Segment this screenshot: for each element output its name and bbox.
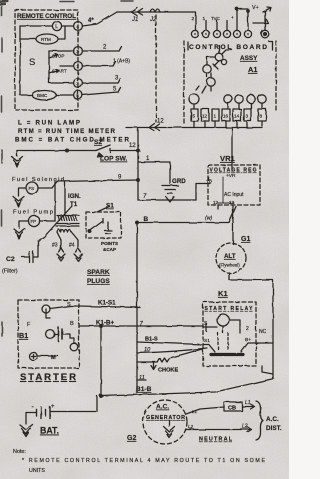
wire B1-B [101,379,274,397]
svg-text:VOLTAGE REG: VOLTAGE REG [210,168,257,174]
wire terminal 3 [49,82,74,84]
junction net 9 at net1 [137,179,140,182]
choke diagonal to K1 [170,349,205,359]
svg-text:G1: G1 [241,236,250,243]
svg-text:(w): (w) [205,216,212,222]
switch S stop contact arrow [49,54,58,58]
connector J1 chevrons [131,8,143,16]
fuel pump FP circle [28,215,39,226]
svg-text:(Flywheel): (Flywheel) [219,263,240,268]
board terminal 7 (x263) [261,30,269,38]
svg-text:F: F [27,322,31,328]
svg-text:J1: J1 [131,17,138,23]
V+ riser wires [237,9,265,30]
terminal center marks [194,33,196,35]
T1 core [56,224,79,227]
svg-text:ASSY: ASSY [240,55,258,62]
svg-text:1: 1 [214,114,217,119]
svg-text:C2: C2 [6,256,15,263]
spark plug 4 [74,240,82,261]
K1 bottom stub [262,366,273,374]
harness boundary dashed drop from J2 [155,15,157,122]
K1 armature dashes [218,333,228,351]
ignition coil T1 primary winding [57,216,79,221]
circuit breaker CB box [224,402,242,411]
svg-text:START RELAY: START RELAY [205,306,254,312]
svg-text:1 (A+B): 1 (A+B) [113,59,130,65]
V+ arrow [253,7,271,23]
svg-text:GENERATOR: GENERATOR [146,415,185,421]
starter B terminal circle [70,343,78,351]
junction dots [236,8,238,10]
net 1 vertical wire [137,128,139,201]
VR1 bottom wire to ALT [232,205,234,244]
junction dot on S2 wire [66,149,69,152]
svg-text:A1: A1 [248,65,257,74]
top bus wire to control board [117,12,196,30]
terminal 4 circle [74,22,83,31]
choke wire [137,361,157,363]
starter internal wire to motor [37,334,74,356]
stub wire net 1 [82,62,115,67]
board component row circle b [235,95,243,103]
terminal box stubs to bus [194,121,262,127]
HT diagonal lead [44,206,72,237]
ground at S2 [12,151,23,168]
starter solenoid wire [46,309,58,334]
points blade [90,219,104,232]
svg-text:11: 11 [139,375,145,381]
alternator ALT circle [216,243,246,273]
wire B1-S [137,342,203,345]
svg-text:REMOTE CONTROL: REMOTE CONTROL [17,13,76,20]
starter S wire to corner [50,306,79,309]
svg-text:14: 14 [234,114,240,119]
VR1 bottom terminal 12 stub [217,205,219,209]
K1 S terminal tick [203,323,208,331]
VR1 +VR stub [231,165,233,171]
switch S1 blade [97,207,109,213]
svg-text:BAT.: BAT. [40,426,59,436]
board terminal 3 (x215) [213,30,220,37]
svg-text:A.C.: A.C. [266,416,279,423]
svg-text:12: 12 [202,114,208,119]
board terminal 5 (x236) [233,30,240,37]
svg-text:RTM = RUN TIME METER: RTM = RUN TIME METER [18,128,116,135]
terminal 2 circle [74,47,83,56]
svg-text:B1: B1 [19,331,28,340]
relay K1 box [203,302,256,366]
ground at battery [20,425,33,437]
starter motor M [29,352,37,360]
svg-text:1: 1 [203,16,206,22]
svg-text:J2: J2 [149,17,157,23]
AC dist brace [256,401,263,440]
svg-text:RTM: RTM [41,37,51,42]
page edge marks [1,6,4,336]
svg-text:S1: S1 [204,338,210,344]
ground at fuel solenoid [13,197,24,208]
wire to GRD [138,162,170,184]
junction dot net B [136,221,139,224]
points and condenser box [86,212,121,238]
generator L2 neutral wire [186,427,252,432]
svg-text:#4: #4 [69,243,75,249]
wire K1-S1 [79,306,140,308]
svg-text:3: 3 [76,81,79,86]
svg-text:DIST.: DIST. [266,425,282,432]
svg-text:B: B [70,321,74,327]
top edge marks [60,0,133,3]
svg-text:B+: B+ [245,337,251,343]
capacitor C2 [22,237,44,263]
svg-text:S2: S2 [94,139,102,146]
board lower terminal box 14 [233,109,241,121]
starter box B1 [18,300,79,368]
K1 contact bar [211,353,243,356]
svg-text:K1-S1: K1-S1 [98,300,116,307]
svg-text:13: 13 [229,200,235,205]
wire 11 stub [137,379,146,381]
bus wire 12 under board [126,127,262,129]
K1 contact arm left S1 [203,345,215,353]
svg-text:A.C.: A.C. [156,404,169,411]
svg-text:S1: S1 [106,203,114,210]
terminal 3 circle [74,79,83,88]
svg-text:12: 12 [129,143,136,149]
svg-text:2: 2 [192,16,195,22]
fuel solenoid FS circle [26,182,38,194]
choke heater zigzag [157,358,170,362]
board lower terminal box 16 [222,109,230,121]
board terminal 4 (x225) [223,30,230,37]
board component Q3 [207,78,215,86]
board component row circle a [224,95,232,103]
board component row circle c [247,95,255,103]
K1 coil leads [222,326,224,333]
board internal wires [207,45,219,78]
svg-text:3: 3 [246,114,249,119]
wire terminal 1 [60,65,74,67]
CB wire to dist with arrow [242,404,255,409]
runtime meter RTM [36,34,58,44]
wire B+ to VR1 [138,184,205,201]
VR1 +B terminal tick [205,183,210,185]
board terminal box stubs down [194,103,262,109]
fuel pump right wire [40,220,55,222]
svg-text:L2: L2 [242,424,248,430]
board terminal 6 (x247) [244,30,251,37]
wire L left to bus [20,25,52,27]
board component Q1 [215,53,223,61]
bus wire left (L,RTM,BMC) [19,26,21,95]
svg-text:+B: +B [206,179,212,185]
voltage regulator VR1 box [208,165,260,205]
wire net 4 to top bus [82,12,117,26]
svg-text:1: 1 [76,64,79,69]
svg-text:L1: L1 [245,400,251,406]
switch S start contact arrow [49,69,58,73]
svg-text:ALT: ALT [224,253,236,260]
terminal 1 circle [74,62,83,71]
condenser C [105,222,112,234]
terminal stub wires up [206,21,227,31]
board small component circle [221,59,226,64]
svg-text:GRD: GRD [172,178,186,185]
board terminal 1 (x193) [191,30,198,37]
svg-text:12: 12 [157,119,164,125]
page corner blob [0,2,8,5]
svg-text:&CAP: &CAP [103,247,116,252]
net B vertical wire [136,223,138,393]
svg-text:4*: 4* [88,18,94,24]
board lower terminal box 1 [212,109,219,121]
T1 primary lead b [64,182,66,216]
fuel pump left wire to ground [19,221,28,228]
svg-text:16: 16 [223,114,229,119]
svg-text:L = RUN LAMP: L = RUN LAMP [18,120,80,127]
svg-text:+VR: +VR [226,173,236,179]
svg-text:+: + [51,404,55,410]
svg-text:B1-S: B1-S [145,337,158,343]
board component Q2 [203,65,211,73]
ground inside generator [164,421,175,438]
svg-text:(Filter): (Filter) [2,269,18,275]
svg-text:4: 4 [76,24,79,29]
K1 contact arm right B+ [241,343,256,352]
wire RTM left to bus [20,38,36,40]
svg-text:G2: G2 [127,435,136,442]
wire L right to terminal 4 [62,25,74,27]
svg-text:Note:: Note: [13,449,26,455]
wire 10 [137,348,207,353]
svg-text:B1-B: B1-B [136,386,152,393]
wire BMC left [20,94,32,96]
net 9 wire [57,180,138,182]
wire terminal 2 [49,50,74,52]
board lower terminal box 3 [244,109,251,121]
svg-text:STOP: STOP [52,54,64,59]
T1 secondary winding [57,230,71,233]
svg-text:FP: FP [31,219,37,224]
battery drop wire [50,396,97,412]
stub wire net 5 [82,88,120,96]
fuel solenoid right wire net 9 [38,182,57,189]
svg-text:CB: CB [228,406,236,412]
svg-text:VR1: VR1 [220,154,236,163]
bus drop to VR1 [231,128,233,166]
run lamp L [52,21,61,30]
svg-text:IGN.: IGN. [68,193,81,200]
fuel solenoid left wire to ground [19,188,27,196]
connector J2 loops [150,9,160,12]
svg-text:K1: K1 [218,289,228,298]
board component CR1 [189,94,199,104]
svg-text:POINTS: POINTS [101,241,118,246]
T1 secondary leads [57,232,78,240]
svg-text:2: 2 [76,49,79,54]
svg-text:TVC: TVC [211,16,220,21]
board lower terminal box 12 [201,109,209,121]
VR1 AC input wire (w) [137,207,236,223]
svg-text:BMC = BAT CHGD METER: BMC = BAT CHGD METER [15,137,130,144]
wire K1-B+ [79,325,203,327]
K1 coil [217,314,229,326]
switch S2 blade [96,145,138,152]
svg-text:CHOKE: CHOKE [158,368,178,374]
wire BMC right to terminal 5 [56,94,74,96]
svg-text:12: 12 [213,200,219,205]
stub wire net 3 [82,79,120,84]
svg-text:Fuel Solenoid: Fuel Solenoid [12,177,64,183]
board internal scribbles [196,50,232,93]
battery feed vertical [100,326,102,396]
svg-text:2: 2 [246,326,249,332]
stub wire net 2 [82,47,121,52]
starter S terminal [42,305,50,313]
svg-text:5: 5 [76,93,79,98]
board component row circle d [258,95,266,103]
svg-text:AC Input: AC Input [224,192,244,198]
svg-text:L2: L2 [188,424,194,429]
AC generator circle [143,400,187,444]
svg-text:SPARK: SPARK [87,269,110,276]
svg-text:L1: L1 [192,409,198,414]
control board A1 outline [184,41,276,124]
VR1 internal wire [218,177,234,203]
svg-text:LOP SW.: LOP SW. [100,156,128,163]
svg-text:UNITS: UNITS [29,468,45,474]
svg-text:8: 8 [260,114,263,119]
terminal 5 circle [74,91,83,100]
svg-text:S: S [67,302,71,308]
choke solenoid arrow [151,362,156,370]
S2 wire from ground [17,150,96,152]
board terminal 2 (x204) [202,30,209,37]
svg-text:S: S [29,57,35,68]
svg-text:10: 10 [144,347,151,353]
wire RTM right up to node 4 [58,26,65,39]
svg-text:PLUGS: PLUGS [87,278,110,285]
svg-text:K1-B+: K1-B+ [96,320,114,327]
switch S pole [48,51,50,83]
junction S2 to net1 [137,149,140,152]
battery BT1 plates [37,407,51,419]
spark plug 3 [57,240,65,261]
board title corner brackets [188,42,273,51]
svg-text:BMC: BMC [37,93,48,98]
svg-text:L: L [55,24,58,30]
LOP SW pointer [98,153,103,157]
battery negative wire to ground [26,413,37,425]
svg-text:5: 5 [193,114,196,119]
svg-text:Fuel Pump: Fuel Pump [13,210,53,216]
svg-text:M: M [51,355,56,361]
svg-text:T1: T1 [70,201,78,208]
svg-text:V+: V+ [252,5,259,11]
ground at fuel pump [14,229,25,240]
board lower terminal box 5 [191,109,198,121]
svg-text:START: START [52,69,67,74]
board lower terminal box 8 [258,109,266,121]
K1 NC wire from right vertical [256,342,273,344]
generator L1 wire [186,407,224,414]
battery charge meter BMC [32,90,56,100]
ALT output wire down right [229,273,273,379]
remote control box [15,10,78,110]
connector chevron on bus 12 [149,124,160,132]
T1 primary lead a [54,182,56,222]
starter solenoid plunger bars [58,327,62,341]
svg-text:+: + [231,16,234,21]
ground GRD [162,186,178,203]
svg-text:B: B [144,216,149,223]
svg-text:#3: #3 [52,243,58,249]
svg-text:FS: FS [29,186,35,191]
starter solenoid coil [46,330,55,339]
svg-text:NC: NC [259,329,267,335]
